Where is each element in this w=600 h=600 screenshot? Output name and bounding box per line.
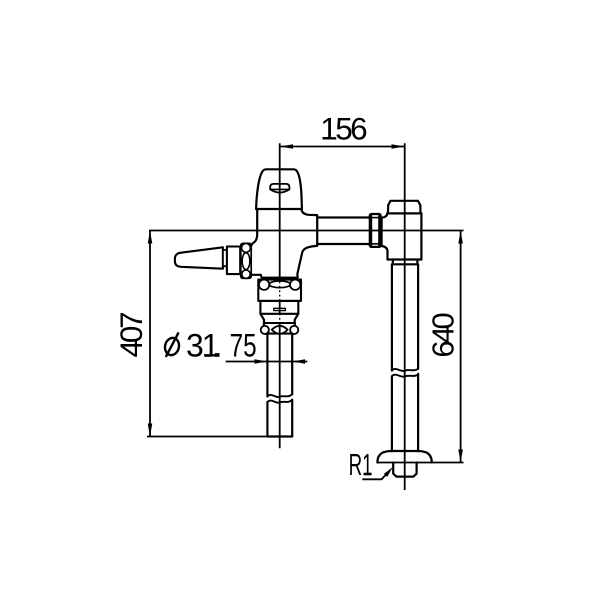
svg-text:407: 407 [113, 313, 149, 358]
svg-text:R1: R1 [349, 448, 373, 482]
svg-text:640: 640 [425, 313, 460, 358]
svg-text:31: 31 [186, 328, 219, 364]
svg-text:75: 75 [230, 328, 257, 364]
svg-text:156: 156 [320, 110, 367, 146]
